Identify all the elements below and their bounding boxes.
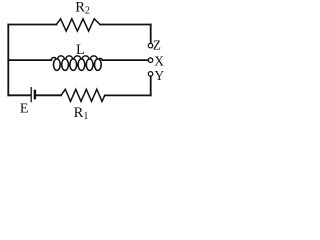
svg-text:Z: Z (153, 38, 161, 53)
wire bottom branch left segment (8, 94, 30, 96)
battery E short plate (34, 91, 36, 98)
wire terminal Z stub (150, 25, 152, 43)
wire terminal Y stub (150, 77, 152, 96)
node X terminal circle (148, 58, 153, 63)
svg-text:Y: Y (154, 68, 164, 83)
svg-text:E: E (20, 102, 29, 117)
svg-text:R1: R1 (74, 105, 89, 120)
resistor R1 (61, 89, 105, 101)
wire battery to R1 segment (36, 94, 61, 96)
wire top branch right segment (100, 24, 151, 26)
wire middle branch right segment (102, 59, 148, 61)
inductor L (51, 56, 102, 71)
node Y terminal circle (148, 72, 153, 77)
svg-text:X: X (154, 54, 164, 69)
svg-text:R2: R2 (75, 0, 90, 17)
wire left vertical bus (7, 25, 9, 96)
wire middle branch left segment (8, 59, 51, 61)
wire bottom branch right segment (105, 94, 151, 96)
battery E long plate (30, 88, 32, 102)
resistor R2 (56, 19, 100, 31)
node Z terminal circle (148, 43, 153, 48)
svg-text:L: L (76, 42, 85, 58)
wire top branch left segment (8, 24, 56, 26)
